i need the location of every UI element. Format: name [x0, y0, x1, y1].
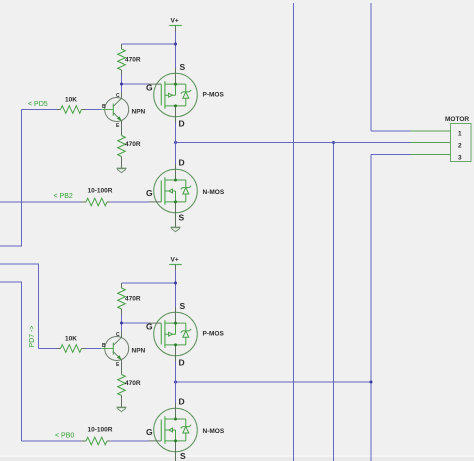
svg-text:P-MOS: P-MOS [203, 331, 225, 338]
connector J1 MOTOR [411, 116, 472, 161]
transistor U4 N-MOS [146, 397, 225, 461]
wire: 10K to NPN2 base [86, 348, 102, 350]
resistor R6 10K [57, 336, 86, 353]
svg-text:G: G [146, 427, 153, 437]
node junction collector/gate [120, 83, 123, 86]
svg-text:470R: 470R [125, 141, 141, 148]
wire: 10K to NPN base [86, 109, 102, 111]
svg-text:N-MOS: N-MOS [203, 189, 225, 196]
node junction at top drain node [174, 141, 177, 144]
wire: P-MOS2 drain to N-MOS2 drain [175, 361, 177, 403]
wire: N-MOS2 source stub to bottom edge [175, 452, 177, 461]
wire: motor pin2 horizontal from top drain node [176, 142, 411, 144]
wire: motor pin1 horizontal [371, 130, 411, 132]
svg-text:D: D [179, 397, 185, 407]
svg-text:C: C [116, 332, 120, 338]
wire: gate wire to P-MOS [122, 83, 149, 85]
svg-text:< PB0: < PB0 [55, 433, 74, 440]
svg-text:D: D [179, 358, 185, 368]
ground (N-MOS source) [171, 213, 181, 232]
svg-text:G: G [146, 322, 153, 332]
svg-text:1: 1 [458, 130, 462, 137]
node junction V+ feed [174, 43, 177, 46]
wire: PB0 horizontal [22, 440, 82, 442]
wire: 10-100R to N-MOS2 gate [110, 440, 148, 442]
svg-text:V+: V+ [171, 257, 179, 264]
wire: net label PD5 horizontal [22, 109, 58, 111]
svg-text:G: G [146, 83, 153, 93]
svg-text:S: S [180, 301, 186, 311]
svg-text:10-100R: 10-100R [88, 427, 113, 434]
svg-text:S: S [180, 451, 186, 461]
svg-text:3: 3 [458, 154, 462, 161]
svg-text:10-100R: 10-100R [88, 188, 113, 195]
resistor R3 470R (emitter) [118, 121, 141, 169]
wire: V+ feed horizontal to R1 [122, 43, 176, 45]
transistor U2 N-MOS [146, 158, 225, 223]
wire: motor pin3 net vertical x=371 [370, 155, 372, 461]
svg-text:B: B [102, 343, 106, 349]
wire: collector pin stub 2 [121, 331, 123, 337]
svg-text:< PD5: < PD5 [28, 101, 48, 108]
transistor U1 P-MOS [146, 62, 224, 129]
svg-text:C: C [116, 93, 120, 99]
ground (emitter resistor) [117, 168, 127, 172]
node junction pin3 vertical [370, 381, 373, 384]
svg-text:NPN: NPN [132, 109, 146, 116]
svg-text:2: 2 [458, 142, 462, 149]
wire: gate wire to P-MOS2 [122, 322, 149, 324]
wire: P-MOS drain to N-MOS drain [175, 122, 177, 164]
resistor R1 470R [118, 44, 141, 76]
svg-text:G: G [146, 188, 153, 198]
svg-text:< PB2: < PB2 [54, 193, 73, 200]
svg-text:S: S [179, 213, 185, 223]
wire: bottom drain node interconnect to pin3 net [176, 381, 372, 383]
resistor R2 10K [57, 97, 86, 114]
svg-text:10K: 10K [65, 97, 77, 104]
node junction collector/gate 2 [120, 322, 123, 325]
wire: V+ down to P-MOS source [175, 32, 177, 69]
resistor R5 470R [118, 283, 141, 315]
ground (emitter resistor 2) [117, 407, 127, 411]
node junction V+ feed 2 [174, 282, 177, 285]
wire: PB2 net horizontal [0, 201, 81, 203]
svg-text:NPN: NPN [132, 348, 146, 355]
wire: R1 to NPN collector node [121, 76, 123, 93]
power symbol V+ (bottom) [169, 257, 182, 271]
wire: PB0 net entry and vertical [0, 282, 22, 441]
wire: vertical net bus x=293.5 full height [293, 3, 295, 461]
svg-text:S: S [180, 62, 186, 72]
wire: V+ down to P-MOS2 source [175, 271, 177, 308]
svg-text:470R: 470R [125, 296, 141, 303]
wire: 10-100R to N-MOS gate [110, 201, 148, 203]
node junction bottom drain [174, 381, 177, 384]
wire: vertical net x=333.5 from motor pin2 row down [333, 143, 335, 461]
transistor Q2 NPN [101, 332, 145, 368]
wire: PD5 vertical down and exit left [0, 110, 22, 247]
transistor Q1 NPN [101, 93, 145, 129]
power symbol V+ (top) [169, 18, 182, 32]
svg-text:P-MOS: P-MOS [203, 92, 225, 99]
wire: motor pin3 horizontal [371, 154, 411, 156]
svg-text:D: D [179, 158, 185, 168]
resistor R8 10-100R [81, 427, 113, 445]
svg-text:D: D [179, 119, 185, 129]
svg-text:PD7 ->: PD7 -> [29, 326, 36, 348]
svg-text:N-MOS: N-MOS [203, 428, 225, 435]
svg-text:V+: V+ [171, 18, 179, 25]
transistor U3 P-MOS [146, 301, 224, 368]
svg-text:MOTOR: MOTOR [445, 116, 469, 123]
svg-text:B: B [102, 104, 106, 110]
wire: R5 to NPN2 collector node [121, 315, 123, 332]
resistor R4 10-100R [81, 188, 113, 206]
wire: PD7 horizontal to 10K [39, 348, 58, 350]
svg-text:10K: 10K [65, 336, 77, 343]
resistor R7 470R (emitter 2) [118, 360, 141, 408]
wire: motor pin1 net vertical x=371 [370, 3, 372, 131]
wire: collector pin stub [121, 92, 123, 98]
wire: PD7 net entry and vertical [0, 264, 39, 349]
wire: V+ feed horizontal to R5 [122, 282, 176, 284]
node junction motor pin2 branch [332, 141, 335, 144]
svg-text:470R: 470R [125, 380, 141, 387]
svg-text:470R: 470R [125, 57, 141, 64]
